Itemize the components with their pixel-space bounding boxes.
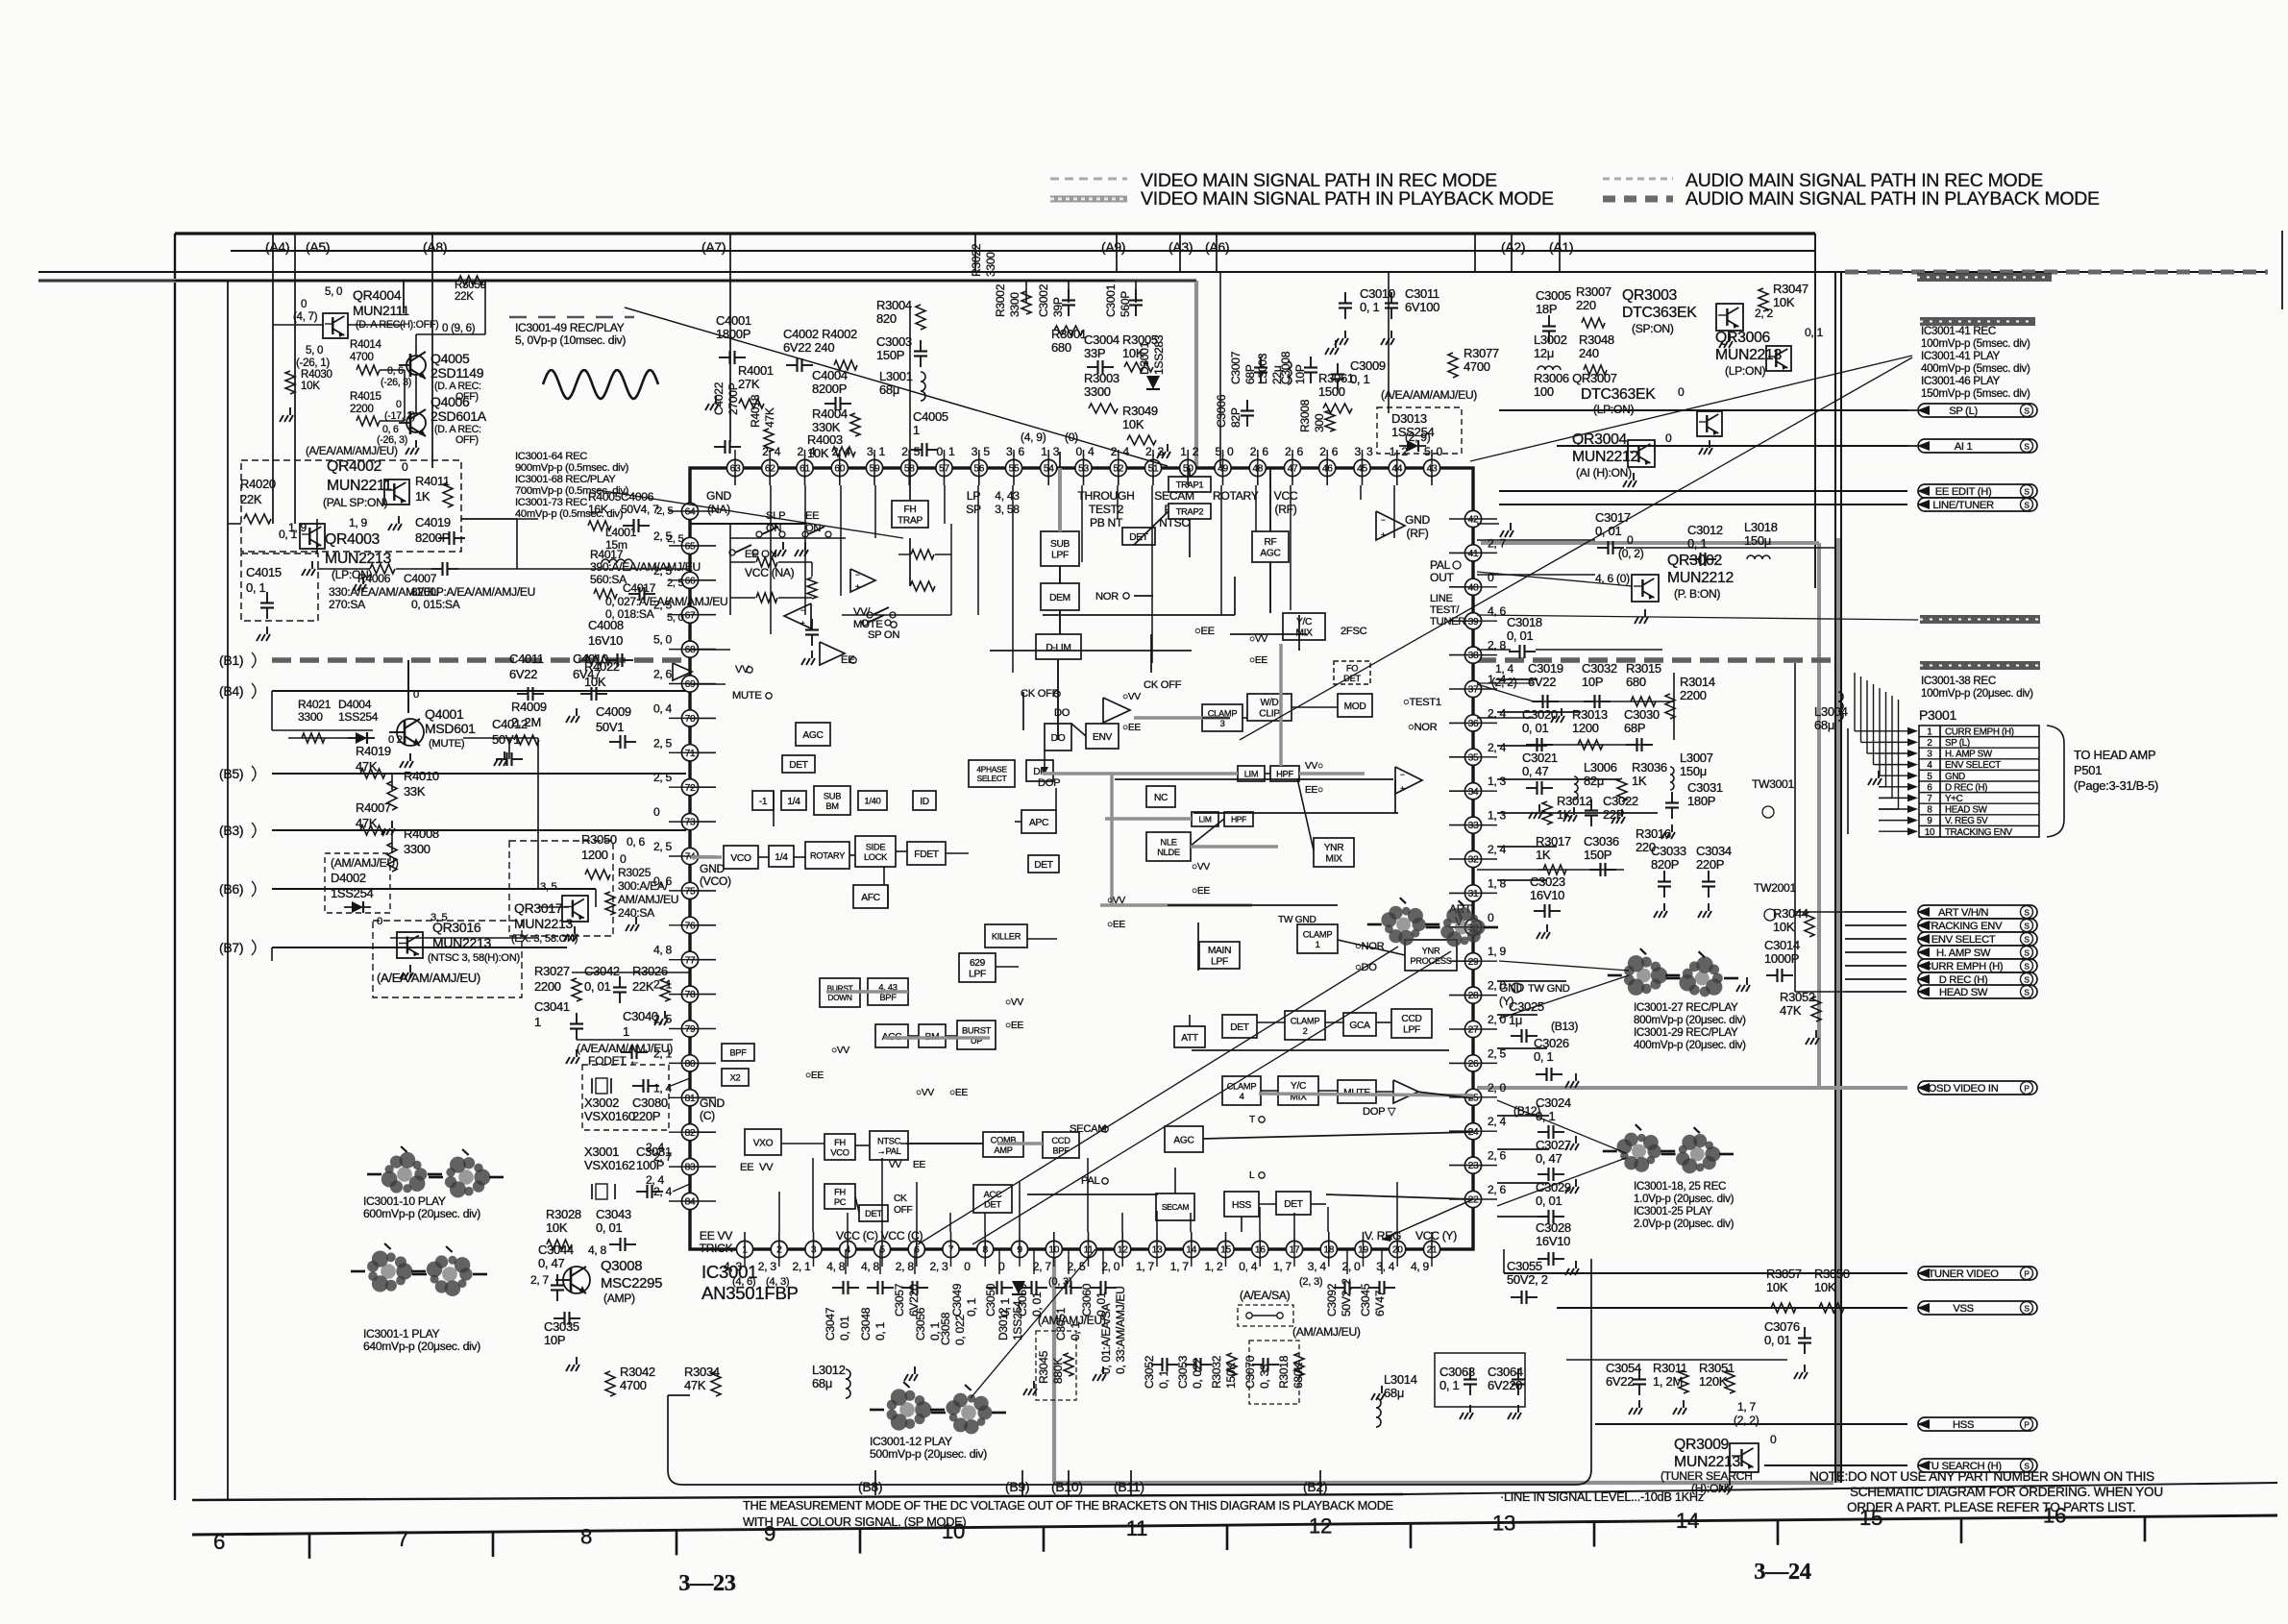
svg-text:(AM/AMJ/EU): (AM/AMJ/EU)	[1292, 1325, 1361, 1339]
svg-text:○VV: ○VV	[1249, 634, 1267, 645]
svg-text:L3003: L3003	[1256, 353, 1269, 384]
svg-text:0: 0	[301, 298, 307, 310]
svg-text:0, 01: 0, 01	[1764, 1333, 1790, 1347]
svg-text:C3014: C3014	[1764, 938, 1800, 952]
svg-text:(RF): (RF)	[1275, 503, 1297, 516]
svg-text:(B6): (B6)	[219, 881, 243, 897]
svg-text:(PAL SP:ON): (PAL SP:ON)	[323, 496, 388, 509]
svg-text:68μ: 68μ	[1384, 1386, 1404, 1400]
svg-text:220: 220	[1576, 298, 1596, 312]
svg-text:2700P: 2700P	[726, 382, 740, 415]
svg-text:77: 77	[685, 955, 696, 966]
svg-text:AGC: AGC	[1260, 549, 1280, 559]
svg-text:0, 01: 0, 01	[1522, 721, 1548, 735]
svg-text:TW GND: TW GND	[1528, 983, 1570, 995]
svg-text:5, 0Vp-p (10msec. div): 5, 0Vp-p (10msec. div)	[515, 333, 626, 347]
svg-text:0, 1: 0, 1	[246, 580, 266, 595]
svg-text:1200: 1200	[581, 848, 608, 862]
svg-text:4: 4	[1240, 1092, 1244, 1101]
svg-text:66: 66	[685, 576, 696, 586]
svg-text:LPF: LPF	[1403, 1025, 1420, 1036]
svg-text:C3019: C3019	[1528, 661, 1563, 676]
svg-text:18P: 18P	[1536, 302, 1557, 316]
svg-text:QR3009: QR3009	[1674, 1437, 1730, 1453]
svg-text:(A/EA/AM/AMJ/EU): (A/EA/AM/AMJ/EU)	[377, 971, 480, 985]
svg-text:10P: 10P	[544, 1333, 565, 1347]
svg-text:0, 1: 0, 1	[965, 1297, 978, 1316]
svg-text:IC3001-1 PLAY: IC3001-1 PLAY	[363, 1327, 439, 1341]
svg-text:16V10: 16V10	[588, 633, 623, 648]
svg-text:(AMP): (AMP)	[603, 1292, 635, 1305]
svg-text:(A/EA/SA): (A/EA/SA)	[1240, 1289, 1291, 1302]
svg-text:150μ: 150μ	[1744, 533, 1771, 548]
svg-text:2, 8: 2, 8	[896, 1260, 915, 1273]
svg-text:(NTSC 3, 58(H):ON): (NTSC 3, 58(H):ON)	[428, 952, 520, 964]
svg-text:C4015: C4015	[246, 565, 282, 579]
svg-text:LIM: LIM	[1198, 815, 1211, 824]
svg-text:L3001: L3001	[879, 369, 913, 383]
svg-text:CK OFF: CK OFF	[1144, 679, 1182, 691]
svg-text:629: 629	[970, 958, 986, 969]
svg-text:0: 0	[1678, 385, 1685, 399]
svg-text:1, 9: 1, 9	[349, 516, 368, 529]
svg-text:(B3): (B3)	[219, 823, 243, 838]
svg-text:QR4003: QR4003	[325, 531, 381, 548]
svg-text:9: 9	[1927, 816, 1931, 826]
svg-text:C4008: C4008	[588, 618, 624, 632]
svg-text:VSS: VSS	[1953, 1303, 1974, 1315]
svg-text:QR3002: QR3002	[1667, 553, 1722, 569]
svg-text:L3006: L3006	[1584, 760, 1617, 775]
svg-text:(A1): (A1)	[1549, 239, 1573, 255]
svg-text:3: 3	[1927, 750, 1932, 760]
svg-text:BURST: BURST	[962, 1025, 992, 1035]
svg-text:+: +	[855, 581, 860, 591]
svg-text:75: 75	[685, 887, 696, 898]
svg-text:600mVp-p (20μsec. div): 600mVp-p (20μsec. div)	[363, 1207, 480, 1220]
svg-text:3, 4: 3, 4	[1376, 1260, 1395, 1273]
svg-text:C3043: C3043	[596, 1207, 631, 1221]
svg-text:22P: 22P	[1603, 807, 1624, 822]
svg-text:OSD VIDEO IN: OSD VIDEO IN	[1929, 1083, 1999, 1095]
svg-text:MUTE: MUTE	[853, 619, 883, 630]
svg-text:16V10: 16V10	[1536, 1234, 1570, 1248]
svg-text:40mVp-p (0.5msec. div): 40mVp-p (0.5msec. div)	[515, 508, 624, 520]
svg-text:MUN2213: MUN2213	[1715, 347, 1783, 363]
svg-text:VCC (Y): VCC (Y)	[1415, 1229, 1457, 1243]
svg-text:1K: 1K	[415, 489, 431, 504]
svg-text:14: 14	[1676, 1509, 1699, 1533]
svg-text:1: 1	[623, 1024, 629, 1039]
svg-text:YNR: YNR	[1422, 946, 1440, 955]
svg-text:78: 78	[685, 990, 696, 1000]
svg-text:0, 01: 0, 01	[838, 1316, 851, 1341]
svg-text:SECAM: SECAM	[1162, 1202, 1190, 1212]
svg-text:R3002: R3002	[994, 283, 1007, 317]
svg-text:0: 0	[1770, 1433, 1777, 1446]
svg-text:IC3001-10 PLAY: IC3001-10 PLAY	[363, 1194, 446, 1208]
svg-text:27K: 27K	[738, 377, 760, 391]
svg-text:(RF): (RF)	[1407, 527, 1429, 540]
svg-text:(A7): (A7)	[701, 239, 726, 255]
svg-text:0, 1: 0, 1	[1157, 1369, 1170, 1389]
svg-text:R3025: R3025	[618, 866, 652, 879]
svg-text:R3049: R3049	[1122, 404, 1158, 418]
svg-text:·LINE IN SIGNAL LEVEL...-10dB: ·LINE IN SIGNAL LEVEL...-10dB 1KHz	[1500, 1489, 1704, 1504]
svg-text:27: 27	[1468, 1025, 1479, 1036]
svg-text:68P: 68P	[1624, 721, 1645, 735]
svg-text:2, 6: 2, 6	[1488, 1183, 1507, 1196]
svg-text:S: S	[2024, 442, 2030, 452]
svg-text:5: 5	[1927, 772, 1932, 782]
svg-text:ART V/H/N: ART V/H/N	[1938, 907, 1988, 919]
svg-text:1, 7: 1, 7	[1136, 1260, 1155, 1273]
svg-text:D3013: D3013	[1391, 411, 1427, 426]
svg-text:APC: APC	[1029, 818, 1048, 828]
svg-text:10K: 10K	[1766, 1280, 1788, 1294]
svg-text:C3035: C3035	[544, 1319, 579, 1334]
svg-text:R3014: R3014	[1680, 675, 1715, 689]
svg-text:MUN2212: MUN2212	[1667, 570, 1734, 586]
svg-text:3, 5: 3, 5	[540, 881, 557, 893]
svg-text:VV○: VV○	[1305, 761, 1323, 772]
svg-text:TRAP: TRAP	[898, 516, 923, 527]
svg-text:2FSC: 2FSC	[1341, 626, 1367, 637]
svg-text:IC3001-38 REC: IC3001-38 REC	[1921, 675, 1996, 687]
svg-text:R3013: R3013	[1572, 707, 1608, 722]
svg-text:34: 34	[1468, 787, 1479, 798]
svg-text:(0, 2): (0, 2)	[1618, 547, 1644, 560]
svg-text:(C): (C)	[700, 1109, 715, 1122]
svg-text:LINE/TUNER: LINE/TUNER	[1932, 500, 1994, 511]
svg-text:P: P	[2024, 1420, 2030, 1430]
svg-text:(SP:ON): (SP:ON)	[1632, 322, 1674, 335]
svg-text:THE MEASUREMENT MODE OF THE DC: THE MEASUREMENT MODE OF THE DC VOLTAGE O…	[743, 1498, 1393, 1513]
svg-text:C3020: C3020	[1522, 707, 1558, 722]
svg-text:R4015: R4015	[350, 390, 381, 403]
svg-text:C3028: C3028	[1536, 1220, 1571, 1235]
svg-text:OFF): OFF)	[455, 434, 479, 446]
svg-text:0, 1: 0, 1	[937, 445, 956, 458]
svg-text:22K: 22K	[240, 492, 262, 506]
svg-text:72: 72	[685, 783, 696, 794]
svg-text:EE: EE	[913, 1160, 925, 1170]
svg-text:C3031: C3031	[1687, 780, 1723, 795]
svg-text:R3042: R3042	[620, 1365, 655, 1379]
svg-text:82μ: 82μ	[1584, 774, 1604, 788]
svg-text:2, 4: 2, 4	[1488, 1115, 1507, 1128]
svg-text:R4001: R4001	[738, 363, 774, 378]
svg-text:39: 39	[1468, 617, 1479, 627]
svg-text:(Page:3-31/B-5): (Page:3-31/B-5)	[2074, 778, 2158, 793]
svg-text:68μ: 68μ	[1814, 718, 1834, 732]
svg-text:50V1: 50V1	[596, 720, 624, 734]
svg-text:TEST2: TEST2	[1089, 503, 1124, 516]
svg-text:2, 6: 2, 6	[1319, 445, 1339, 458]
svg-text:VXO: VXO	[753, 1139, 774, 1149]
svg-text:2, 4: 2, 4	[1488, 741, 1507, 754]
svg-text:R3051: R3051	[1699, 1361, 1734, 1375]
svg-text:680: 680	[1051, 340, 1071, 355]
svg-text:C3032: C3032	[1582, 661, 1617, 676]
svg-text:R4009: R4009	[511, 700, 547, 714]
svg-text:VV: VV	[735, 664, 750, 676]
svg-text:CK: CK	[894, 1193, 907, 1204]
svg-text:2, 3: 2, 3	[930, 1260, 949, 1273]
svg-text:DET: DET	[789, 760, 808, 771]
svg-text:2: 2	[1303, 1026, 1308, 1036]
svg-text:L4001: L4001	[605, 526, 637, 539]
svg-text:R3026: R3026	[632, 964, 668, 978]
svg-text:7: 7	[1927, 794, 1931, 804]
svg-text:0, 015:SA: 0, 015:SA	[411, 598, 461, 611]
svg-text:D3001: D3001	[1138, 341, 1151, 375]
svg-text:Q4006: Q4006	[431, 394, 470, 409]
svg-text:1K: 1K	[1557, 807, 1572, 822]
svg-text:16V10: 16V10	[1530, 888, 1564, 902]
svg-text:KILLER: KILLER	[992, 932, 1021, 942]
svg-text:0 (9, 6): 0 (9, 6)	[442, 322, 476, 334]
svg-text:SECAM: SECAM	[1070, 1123, 1106, 1135]
svg-text:VIDEO MAIN SIGNAL PATH IN PLAY: VIDEO MAIN SIGNAL PATH IN PLAYBACK MODE	[1141, 188, 1554, 209]
svg-text:○EE: ○EE	[1122, 723, 1141, 733]
svg-text:HEAD SW: HEAD SW	[1939, 987, 1988, 998]
svg-text:82P: 82P	[1229, 407, 1242, 428]
svg-text:L3018: L3018	[1744, 520, 1778, 534]
svg-text:H. AMP SW: H. AMP SW	[1936, 947, 1991, 959]
svg-text:SLP: SLP	[766, 510, 785, 522]
svg-text:○EE: ○EE	[1005, 1021, 1023, 1031]
svg-text:2, 5: 2, 5	[653, 736, 673, 750]
svg-text:C3033: C3033	[1651, 844, 1686, 858]
svg-text:81: 81	[685, 1094, 696, 1104]
svg-text:(4, 9): (4, 9)	[1021, 431, 1046, 444]
svg-text:0, 47: 0, 47	[1522, 764, 1548, 778]
svg-text:0: 0	[396, 399, 402, 410]
svg-text:10P: 10P	[1582, 675, 1603, 689]
svg-text:67: 67	[685, 610, 696, 621]
svg-text:C3076: C3076	[1764, 1319, 1800, 1334]
svg-text:10: 10	[942, 1519, 965, 1543]
svg-text:○EE: ○EE	[1192, 886, 1210, 897]
svg-text:C4011: C4011	[509, 652, 544, 666]
svg-text:38: 38	[1468, 651, 1479, 661]
svg-text:0, 4: 0, 4	[1239, 1260, 1258, 1273]
svg-text:10K: 10K	[1814, 1280, 1836, 1294]
svg-text:DO: DO	[1054, 707, 1070, 719]
svg-text:○VV: ○VV	[1192, 862, 1210, 873]
svg-text:800mVp-p (20μsec. div): 800mVp-p (20μsec. div)	[1634, 1014, 1746, 1026]
svg-text:1: 1	[913, 423, 920, 437]
svg-text:R3044: R3044	[1773, 906, 1808, 921]
svg-text:R3048: R3048	[1579, 332, 1614, 347]
svg-text:ORDER A PART. PLEASE REFER TO: ORDER A PART. PLEASE REFER TO PARTS LIST…	[1847, 1500, 2135, 1514]
svg-text:S: S	[2024, 406, 2030, 416]
svg-text:10K: 10K	[301, 380, 320, 392]
svg-text:○EE: ○EE	[949, 1088, 968, 1098]
svg-text:CCD: CCD	[1051, 1136, 1070, 1145]
svg-text:LPF: LPF	[969, 970, 986, 980]
svg-text:DET: DET	[1343, 674, 1361, 683]
svg-text:EE: EE	[740, 1162, 753, 1173]
svg-text:C4009: C4009	[596, 704, 631, 719]
svg-text:0, 33:AM/AMJ/EU: 0, 33:AM/AMJ/EU	[1114, 1286, 1127, 1374]
svg-text:RF: RF	[1265, 537, 1277, 548]
svg-text:(MUTE): (MUTE)	[429, 738, 465, 750]
svg-text:Y/C: Y/C	[1291, 1081, 1306, 1092]
svg-text:C3025: C3025	[1509, 999, 1544, 1014]
svg-text:5, 0: 5, 0	[667, 612, 684, 624]
svg-text:0, 1: 0, 1	[1687, 536, 1708, 551]
svg-text:79: 79	[685, 1024, 696, 1035]
svg-text:S: S	[2024, 501, 2030, 510]
svg-text:3—24: 3—24	[1754, 1559, 1810, 1585]
svg-text:SELECT: SELECT	[977, 774, 1007, 783]
svg-text:(B8): (B8)	[858, 1479, 882, 1494]
svg-text:640mVp-p (20μsec. div): 640mVp-p (20μsec. div)	[363, 1340, 480, 1353]
svg-text:R4008: R4008	[404, 826, 439, 841]
svg-text:0, 01: 0, 01	[1595, 524, 1621, 538]
svg-text:EE: EE	[841, 654, 854, 666]
svg-text:33K: 33K	[404, 784, 426, 799]
svg-text:C3008: C3008	[1279, 351, 1292, 384]
svg-text:1800P: 1800P	[716, 327, 750, 341]
svg-text:3, 4: 3, 4	[1308, 1260, 1327, 1273]
svg-text:C4007: C4007	[404, 572, 437, 585]
svg-text:1, 2: 1, 2	[1180, 445, 1199, 458]
svg-text:C4005: C4005	[913, 409, 948, 424]
svg-text:R3007: R3007	[1576, 284, 1611, 299]
svg-text:10K: 10K	[1773, 920, 1795, 934]
svg-text:4PHASE: 4PHASE	[976, 765, 1007, 775]
svg-text:100mVp-p (20μsec. div): 100mVp-p (20μsec. div)	[1921, 687, 2033, 700]
svg-text:R3045: R3045	[1037, 1350, 1050, 1384]
svg-text:C3034: C3034	[1696, 844, 1732, 858]
svg-text:1, 7: 1, 7	[1170, 1260, 1190, 1273]
svg-text:26: 26	[1468, 1059, 1479, 1070]
svg-text:R4021: R4021	[298, 698, 332, 711]
svg-text:ROTARY: ROTARY	[1213, 489, 1259, 503]
svg-text:36: 36	[1468, 719, 1479, 729]
svg-text:C3040: C3040	[623, 1009, 658, 1023]
svg-text:(B1): (B1)	[219, 652, 243, 668]
svg-text:(LP:ON): (LP:ON)	[1593, 403, 1635, 416]
svg-text:HPF: HPF	[1231, 815, 1246, 824]
svg-text:76: 76	[685, 921, 696, 931]
svg-text:R3027: R3027	[534, 964, 570, 978]
svg-text:1.0Vp-p (20μsec. div): 1.0Vp-p (20μsec. div)	[1634, 1193, 1734, 1205]
svg-text:C3049: C3049	[950, 1283, 964, 1316]
svg-text:○TEST1: ○TEST1	[1403, 697, 1441, 708]
svg-text:DEM: DEM	[1049, 593, 1070, 603]
svg-text:C3010: C3010	[1360, 286, 1395, 301]
svg-text:(A/EA/AM/AMJ/EU): (A/EA/AM/AMJ/EU)	[577, 1042, 673, 1055]
svg-text:10K: 10K	[1122, 417, 1144, 431]
svg-text:1SS283: 1SS283	[1152, 334, 1166, 375]
svg-text:C3002: C3002	[1037, 283, 1050, 317]
svg-text:0, 33: 0, 33	[1258, 1364, 1271, 1389]
svg-text:C3053: C3053	[1176, 1355, 1190, 1389]
svg-text:68μ: 68μ	[812, 1376, 832, 1390]
svg-text:2, 5: 2, 5	[653, 771, 673, 784]
svg-text:2, 5: 2, 5	[901, 445, 921, 458]
svg-text:−: −	[1400, 770, 1405, 779]
svg-text:0: 0	[402, 460, 408, 474]
svg-text:D3012: D3012	[996, 1307, 1010, 1341]
svg-text:IC3001-18, 25 REC: IC3001-18, 25 REC	[1634, 1180, 1726, 1193]
svg-text:V. REG 5V: V. REG 5V	[1945, 816, 1988, 826]
svg-text:MAIN: MAIN	[1208, 946, 1231, 956]
svg-text:(A/EA/AM/AMJ/EU): (A/EA/AM/AMJ/EU)	[1381, 388, 1477, 402]
svg-text:150mVp-p (5msec. div): 150mVp-p (5msec. div)	[1921, 387, 2030, 400]
svg-text:IC3001-29 REC/PLAY: IC3001-29 REC/PLAY	[1634, 1026, 1738, 1039]
svg-text:C3005: C3005	[1536, 288, 1571, 303]
svg-text:VCO: VCO	[830, 1147, 849, 1157]
svg-text:1: 1	[1927, 726, 1931, 737]
svg-text:C3070: C3070	[1243, 1355, 1257, 1389]
svg-text:+: +	[1381, 529, 1386, 539]
svg-text:C3007: C3007	[1229, 351, 1242, 384]
svg-text:NLE: NLE	[1160, 837, 1176, 847]
svg-text:C3011: C3011	[1405, 286, 1439, 301]
svg-text:C3041: C3041	[534, 999, 570, 1014]
svg-text:6V22: 6V22	[1606, 1374, 1634, 1389]
svg-text:4, 8: 4, 8	[588, 1243, 607, 1257]
svg-text:R3016: R3016	[1636, 826, 1671, 841]
svg-text:QR4004: QR4004	[353, 287, 402, 303]
svg-text:TRAP1: TRAP1	[1176, 480, 1204, 490]
svg-text:BPF: BPF	[879, 993, 897, 1002]
svg-text:1, 8: 1, 8	[1488, 876, 1507, 890]
svg-text:7: 7	[397, 1527, 408, 1551]
svg-text:0: 0	[377, 916, 382, 927]
svg-text:FO: FO	[1346, 663, 1358, 673]
svg-text:(A4): (A4)	[265, 239, 289, 255]
svg-text:DET: DET	[1284, 1199, 1303, 1210]
svg-text:4, 8: 4, 8	[653, 944, 673, 957]
svg-text:4, 6: 4, 6	[1488, 604, 1507, 618]
svg-text:HEAD SW: HEAD SW	[1945, 805, 1988, 816]
svg-text:W/D: W/D	[1261, 698, 1279, 708]
svg-text:○VV: ○VV	[916, 1088, 934, 1098]
svg-text:C3006: C3006	[1215, 394, 1228, 428]
svg-text:8: 8	[1927, 805, 1932, 816]
svg-text:IC3001-27 REC/PLAY: IC3001-27 REC/PLAY	[1634, 1001, 1738, 1014]
svg-text:(2, 3): (2, 3)	[1299, 1276, 1323, 1288]
svg-text:R4014: R4014	[350, 338, 382, 351]
svg-text:L3007: L3007	[1680, 750, 1713, 765]
svg-text:ENV: ENV	[1093, 732, 1113, 743]
svg-text:4: 4	[1927, 760, 1932, 771]
svg-text:22K: 22K	[632, 979, 654, 994]
svg-text:12μ: 12μ	[1534, 346, 1554, 360]
svg-text:(4, 7): (4, 7)	[293, 310, 318, 323]
svg-text:C3017: C3017	[1595, 510, 1631, 525]
svg-text:0, 1: 0, 1	[1360, 300, 1380, 314]
svg-text:1SS254: 1SS254	[338, 710, 379, 724]
svg-text:ENV SELECT: ENV SELECT	[1945, 760, 2001, 771]
svg-text:C3047: C3047	[824, 1307, 837, 1341]
svg-text:LPF: LPF	[1211, 957, 1228, 968]
svg-text:TW GND: TW GND	[1278, 915, 1316, 925]
svg-text:0, 027:A/EA/AM/AMJ/EU: 0, 027:A/EA/AM/AMJ/EU	[605, 595, 727, 608]
svg-text:100: 100	[1534, 384, 1554, 399]
svg-text:390:A/EA/AM/AMJ/EU: 390:A/EA/AM/AMJ/EU	[590, 560, 701, 574]
svg-text:ID: ID	[920, 797, 929, 807]
svg-text:VSX0162: VSX0162	[584, 1158, 635, 1172]
svg-text:50V2, 2: 50V2, 2	[1340, 1278, 1353, 1316]
svg-text:4, 3: 4, 3	[724, 1260, 743, 1273]
